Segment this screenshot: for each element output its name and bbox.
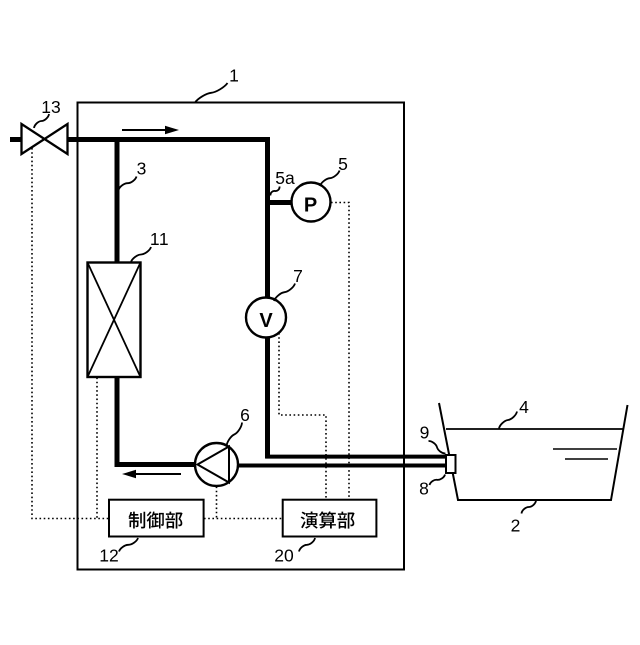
leader to label 3 xyxy=(119,177,137,191)
dotted signal line: heat exchanger 11 to controller 12 xyxy=(96,378,98,519)
wire: upper outlet pipe to tank nozzle xyxy=(266,455,448,459)
dotted signal line: controller 12 to calculator 20 xyxy=(204,518,282,520)
leader to label 13 xyxy=(34,114,49,128)
enclosure box 1 xyxy=(78,103,405,570)
svg-text:20: 20 xyxy=(274,546,294,566)
wire: lower outlet pipe from pump 6 to tank nozzle xyxy=(235,464,447,468)
liquid mark line 2 xyxy=(565,458,608,460)
dotted signal line: gauge 7 to calculator 20 xyxy=(279,333,326,499)
pump 6 xyxy=(195,443,238,486)
leader to label 12 xyxy=(119,538,138,552)
liquid surface 4 xyxy=(446,428,623,430)
svg-text:9: 9 xyxy=(420,423,430,443)
svg-text:1: 1 xyxy=(229,66,239,86)
svg-text:12: 12 xyxy=(99,546,118,566)
leader to label 4 xyxy=(499,412,517,429)
leader to label 7 xyxy=(274,284,295,302)
tank 2 outline xyxy=(439,403,628,500)
calculator text 演算部 xyxy=(301,511,355,528)
svg-text:13: 13 xyxy=(41,97,60,117)
svg-text:3: 3 xyxy=(137,159,147,179)
controller box 12 (制御部) xyxy=(109,500,204,537)
leader to label 5a xyxy=(270,187,279,196)
svg-text:V: V xyxy=(259,310,273,332)
controller text 制御部 xyxy=(129,512,183,529)
gauge 7 (V) xyxy=(246,298,286,338)
leader to label 5 xyxy=(320,171,340,187)
flow arrow bottom (leftward) xyxy=(122,470,181,478)
leader to label 11 xyxy=(131,247,151,262)
calculator box 20 (演算部) xyxy=(283,500,377,537)
wire: top pipe from valve 13 to right corner, down to bottom xyxy=(67,140,268,459)
liquid mark line 1 xyxy=(553,448,617,450)
nozzle 8/9 at tank wall xyxy=(446,455,456,473)
leader to label 8 xyxy=(430,475,446,486)
wire: left pipe 3 down through heat exchanger to pump xyxy=(117,137,198,465)
flow arrow top (rightward) xyxy=(122,126,179,134)
svg-text:5a: 5a xyxy=(275,168,295,188)
leader to label 20 xyxy=(299,538,315,552)
heat exchanger 11 xyxy=(88,263,141,378)
leader to label 6 xyxy=(227,423,243,447)
dotted signal line: valve 13 to controller 12 xyxy=(32,148,108,519)
dotted signal line: pressure gauge 5 to calculator 20 xyxy=(331,203,349,500)
leader to label 1 xyxy=(195,83,228,103)
svg-text:11: 11 xyxy=(150,229,169,249)
svg-text:8: 8 xyxy=(419,479,429,499)
svg-text:6: 6 xyxy=(240,405,250,425)
leader to label 2 xyxy=(522,501,537,514)
wire: pipe stub to pressure gauge 5a xyxy=(270,200,293,205)
dotted signal line: pump 6 to controller/calculator xyxy=(216,487,218,519)
svg-text:P: P xyxy=(304,195,317,217)
svg-text:7: 7 xyxy=(293,266,303,286)
valve 13 (bowtie) xyxy=(22,124,68,154)
pressure gauge 5 (P) xyxy=(292,183,331,222)
svg-text:4: 4 xyxy=(519,397,529,417)
wire: inlet stub left of valve xyxy=(10,137,22,142)
svg-text:2: 2 xyxy=(511,516,521,536)
svg-text:5: 5 xyxy=(338,154,348,174)
leader to label 9 xyxy=(429,441,446,454)
